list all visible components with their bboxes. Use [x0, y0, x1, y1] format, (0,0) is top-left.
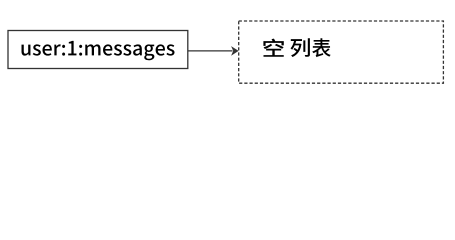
dashed node box empty list [239, 21, 444, 83]
arrowhead [231, 46, 239, 56]
label user:1:messages [22, 41, 175, 60]
node box user:1:messages [8, 31, 188, 69]
label char 列 [291, 38, 310, 57]
label char 空 [263, 39, 283, 57]
label char 表 [312, 38, 331, 57]
wire arrow shaft [188, 50, 233, 52]
